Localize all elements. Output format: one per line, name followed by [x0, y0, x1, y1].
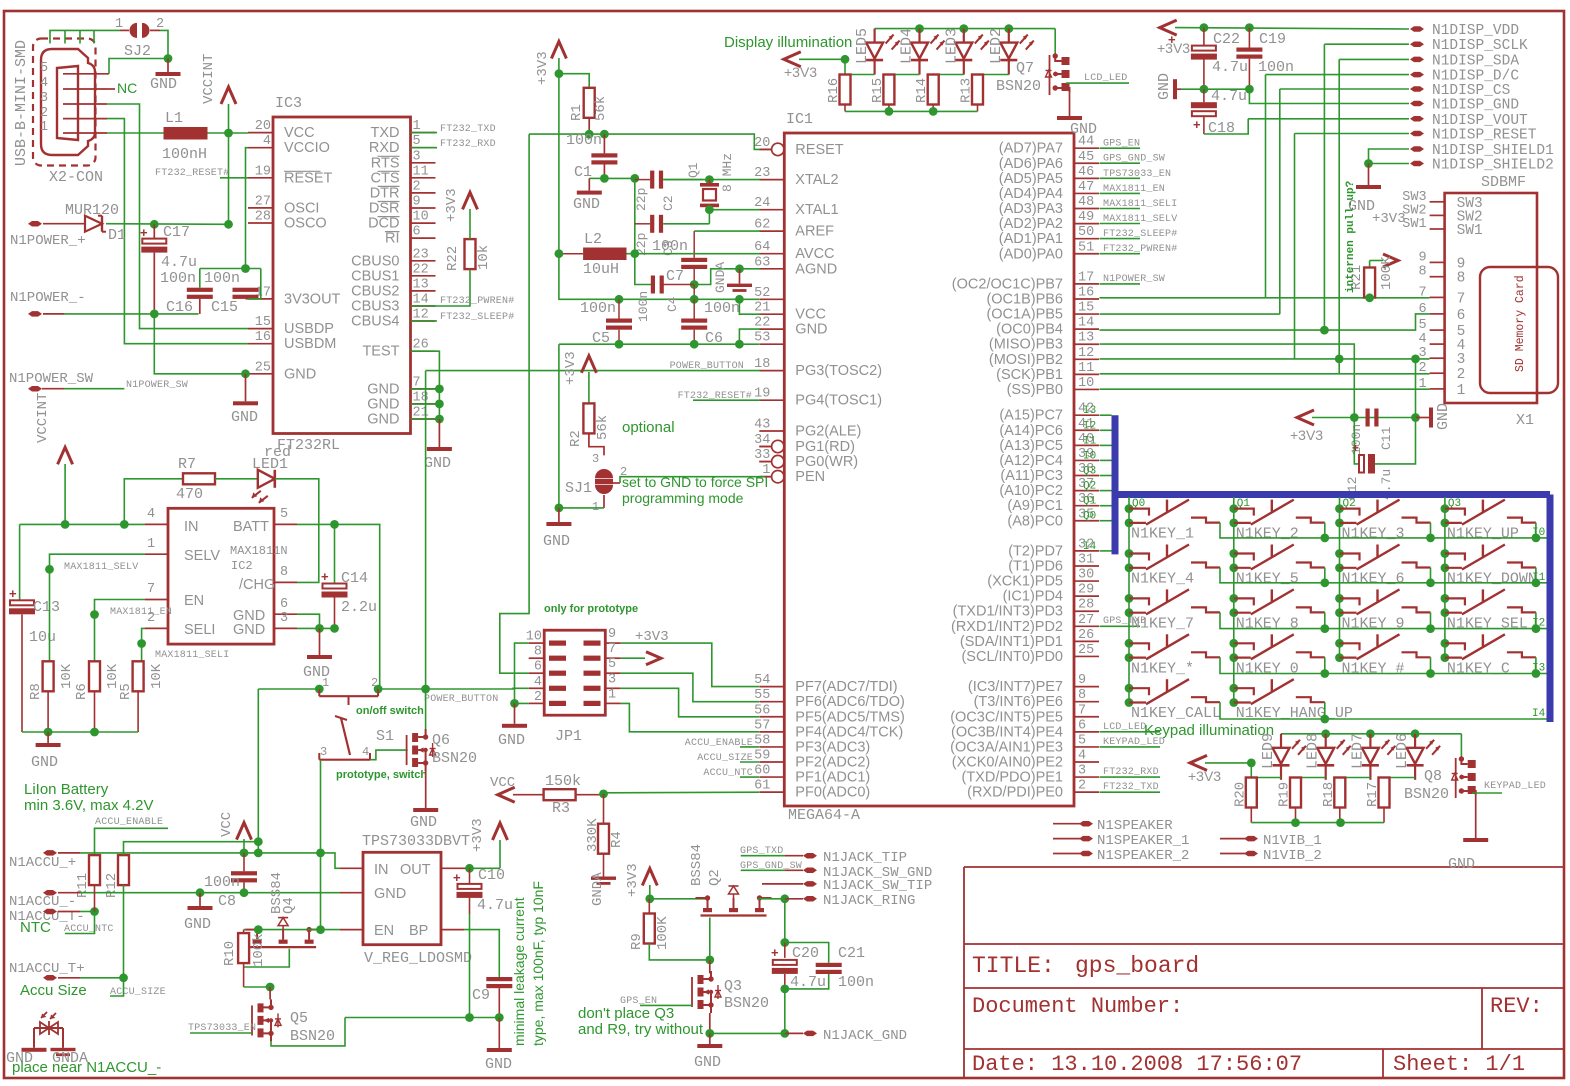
svg-text:(SDA/INT1)PD1: (SDA/INT1)PD1: [960, 634, 1063, 650]
svg-text:C2: C2: [661, 195, 676, 211]
svg-text:(A14)PC6: (A14)PC6: [999, 423, 1063, 439]
svg-text:I0: I0: [1083, 450, 1096, 462]
svg-text:XTAL1: XTAL1: [795, 202, 838, 218]
svg-text:3: 3: [320, 745, 327, 759]
svg-text:N1SPEAKER_2: N1SPEAKER_2: [1097, 848, 1189, 864]
svg-text:POWER_BUTTON: POWER_BUTTON: [670, 361, 744, 372]
svg-text:Q8: Q8: [1424, 768, 1442, 785]
wire TPS73033_EN label: [190, 1032, 252, 1034]
wire FT232 TXD net: [411, 132, 438, 134]
svg-text:PF6(ADC6/TDO): PF6(ADC6/TDO): [795, 694, 905, 710]
IC1 pin 9 (IC3/INT7)PE7: [1074, 686, 1099, 688]
net stub N1DISP_SHIELD1: [1410, 146, 1424, 152]
svg-text:N1VIB_2: N1VIB_2: [1263, 848, 1322, 864]
svg-text:N1VIB_1: N1VIB_1: [1263, 833, 1322, 849]
svg-text:5: 5: [1078, 733, 1086, 748]
wire N1DISP_VOUT: [1248, 118, 1409, 120]
capacitor C5 100n: [618, 299, 620, 318]
wire N1DISP_D/C: [1266, 74, 1410, 76]
IC3 pin 14 CBUS3: [411, 305, 436, 307]
svg-text:(IC1)PD4: (IC1)PD4: [1003, 589, 1063, 605]
capacitor C10 4.7u: [469, 868, 471, 884]
svg-text:10K: 10K: [59, 663, 75, 689]
wire net GPS_EN at IC1: [1100, 147, 1141, 149]
resistor R12: [118, 855, 129, 885]
IC3 pin 6 RI: [411, 237, 436, 239]
svg-text:15: 15: [255, 315, 271, 330]
capacitor C3 22p: [635, 223, 650, 225]
svg-text:10: 10: [413, 210, 429, 225]
wire AGND to pin 63: [740, 268, 761, 270]
svg-text:R2: R2: [568, 430, 584, 447]
wire keypad column Q2: [1339, 497, 1341, 658]
IC1 pin 55 PF6(ADC6/TDO): [759, 701, 784, 703]
resistor R14: [932, 74, 934, 76]
IC1 pin 64 AVCC: [759, 253, 784, 255]
TPS pin EN: [340, 929, 363, 931]
svg-text:TPS73033DBVT: TPS73033DBVT: [362, 833, 470, 850]
switch N1KEY_4: [1125, 549, 1134, 558]
IC1 pin 61 PF0(ADC0): [759, 791, 784, 793]
svg-text:(MOSI)PB2: (MOSI)PB2: [989, 352, 1063, 368]
wire JP1 pin3 to PF5: [621, 688, 759, 717]
svg-text:internen pull-up?: internen pull-up?: [1345, 181, 1357, 293]
svg-text:OUT: OUT: [400, 862, 431, 878]
IC1 pin 22 GND: [759, 328, 784, 330]
svg-text:VCC: VCC: [219, 812, 235, 837]
svg-text:Display illumination: Display illumination: [724, 34, 852, 51]
IC1 pin 46 (AD5)PA5: [1074, 177, 1099, 179]
junction R21 bottom on SD7 row: [1365, 293, 1374, 302]
resistor R5 10K: [133, 661, 144, 691]
svg-text:gps_board: gps_board: [1075, 953, 1199, 979]
svg-text:3: 3: [40, 91, 48, 106]
svg-text:(AD3)PA3: (AD3)PA3: [999, 201, 1063, 217]
transistor Q2 BSS84: [696, 897, 708, 899]
svg-text:C20: C20: [792, 945, 819, 962]
SD pin 2: [1430, 372, 1445, 374]
svg-text:(SS)PB0: (SS)PB0: [1007, 382, 1063, 398]
svg-text:100n: 100n: [1258, 59, 1294, 76]
svg-text:I2: I2: [1532, 618, 1545, 630]
net stub N1SPEAKER_1: [1053, 838, 1080, 840]
IC2 pin 8 /CHG: [274, 581, 297, 583]
svg-text:R10: R10: [222, 941, 238, 966]
svg-text:(XCK0/AIN0)PE2: (XCK0/AIN0)PE2: [952, 755, 1063, 771]
IC3 pin 15 USBDP: [248, 328, 273, 330]
svg-text:(AD1)PA1: (AD1)PA1: [999, 231, 1063, 247]
IC1 pin 51 (AD0)PA0: [1074, 253, 1099, 255]
wire +3V3 to R1: [559, 74, 589, 88]
wire keypad resistor bottoms: [1250, 808, 1252, 823]
svg-text:GND: GND: [424, 455, 451, 472]
IC2 pin 4 IN: [145, 523, 168, 525]
IC1 pin 30 (XCK1)PD5: [1074, 580, 1099, 582]
svg-text:LED5: LED5: [854, 28, 871, 64]
wire N1DISP_SHIELD2: [1369, 163, 1410, 165]
LED LED4: [918, 29, 920, 43]
svg-text:I1: I1: [1083, 435, 1097, 447]
IC1 pin 62 AREF: [759, 230, 784, 232]
capacitor C20 4.7u: [784, 943, 786, 958]
svg-text:POWER_BUTTON: POWER_BUTTON: [424, 694, 498, 705]
svg-text:MAX1811_SELI: MAX1811_SELI: [155, 650, 229, 661]
svg-text:PG3(TOSC2): PG3(TOSC2): [795, 363, 882, 379]
svg-text:programming mode: programming mode: [622, 490, 744, 506]
svg-text:+: +: [1193, 117, 1201, 132]
wire battery switch vertical: [257, 689, 259, 853]
svg-text:Document Number:: Document Number:: [972, 994, 1183, 1019]
X2 pin 5: [63, 73, 107, 75]
wire POWER_BUTTON to JP1 pin4: [426, 687, 529, 690]
wire resistor bottom rail to GND: [47, 691, 49, 732]
svg-text:GND: GND: [231, 409, 258, 426]
svg-text:R1: R1: [569, 104, 585, 121]
svg-text:R18: R18: [1321, 782, 1337, 807]
resistor R17: [1383, 777, 1385, 779]
net stub N1DISP_SDA: [1410, 57, 1424, 63]
wire KEYPAD_LED from Q8: [1472, 792, 1502, 794]
dual diode GND GNDA coupling: [34, 1027, 63, 1029]
svg-text:IC1: IC1: [786, 111, 813, 128]
svg-text:+: +: [453, 870, 461, 885]
ground GNDA under R4: [603, 854, 605, 877]
svg-text:+: +: [1352, 441, 1359, 455]
svg-text:GND: GND: [573, 196, 600, 213]
wire FT232 RXD net: [411, 147, 438, 149]
wire +3V3 to R20: [1205, 762, 1251, 764]
wire S1 pin2 to POWER_BUTTON node: [378, 688, 426, 690]
svg-text:PG2(ALE): PG2(ALE): [795, 424, 861, 440]
svg-text:(AD0)PA0: (AD0)PA0: [999, 246, 1063, 262]
svg-text:45: 45: [1078, 150, 1094, 165]
svg-text:(RXD1/INT2)PD2: (RXD1/INT2)PD2: [951, 619, 1063, 635]
wire EN to Q4/R10 node: [258, 929, 340, 931]
svg-text:8: 8: [1418, 265, 1426, 280]
wire N1DISP_SHIELD1 to GND: [1369, 149, 1410, 164]
svg-text:R19: R19: [1277, 782, 1293, 807]
svg-text:C13: C13: [33, 599, 60, 616]
wire GND row under regulator: [345, 1017, 499, 1019]
svg-text:Q1: Q1: [686, 162, 701, 178]
wire JP1 pin9 +3V3 to PF7: [621, 643, 759, 687]
SD pin 9: [1430, 261, 1445, 263]
junction at VCCINT/D1: [224, 220, 233, 229]
wire JP1 pin10/pin2 GND: [515, 643, 529, 703]
IC3 pin 5 RXD: [411, 147, 436, 149]
wire S1 pin4 to Q6 gate: [370, 750, 408, 760]
svg-text:VCC: VCC: [490, 775, 515, 791]
svg-text:/CHG: /CHG: [239, 577, 275, 593]
SD pin 3: [1430, 357, 1445, 359]
wire N1ACCU_+ row: [58, 852, 80, 854]
LED LED2: [1008, 29, 1010, 43]
svg-text:7: 7: [1418, 285, 1426, 300]
IC1 pin 53 GND: [759, 343, 784, 345]
transistor Q7 BSN20: [1054, 29, 1056, 54]
wire N1DISP_SDA: [1339, 58, 1409, 60]
LED LED1 red: [215, 478, 258, 480]
svg-text:USBDM: USBDM: [284, 336, 336, 352]
dual diode GND GNDA coupling arrows: [41, 1012, 47, 1018]
solder jumper SJ1: [595, 469, 613, 478]
svg-text:Q4: Q4: [281, 897, 297, 914]
svg-text:PG1(RD): PG1(RD): [795, 439, 855, 455]
supply VCCINT arrow: [228, 104, 230, 133]
wire keypad column Q3: [1444, 497, 1446, 658]
wire S1 pin3 down to Q4 right: [320, 760, 322, 930]
svg-text:CBUS4: CBUS4: [351, 314, 399, 330]
X2 pin 2: [63, 118, 107, 120]
IC3 pin 21 GND: [411, 418, 436, 420]
svg-text:Q3: Q3: [724, 978, 742, 995]
supply +3V3 top center: [551, 42, 566, 59]
svg-text:C7: C7: [666, 268, 684, 285]
IC1 pin 52 VCC: [759, 298, 784, 300]
wire N1JACK_GND row: [710, 1032, 785, 1034]
wire LCD_LED from Q7 gate: [1066, 82, 1129, 84]
svg-text:7: 7: [1457, 291, 1466, 307]
svg-text:LED9: LED9: [1260, 733, 1277, 769]
junction R16 top: [841, 55, 850, 64]
svg-text:+: +: [771, 945, 779, 960]
svg-text:7: 7: [1078, 703, 1086, 718]
svg-text:MAX1811N: MAX1811N: [230, 544, 288, 558]
svg-text:GPS_EN: GPS_EN: [1103, 139, 1140, 150]
svg-text:RXD: RXD: [369, 140, 400, 156]
ground GND battery rail: [47, 732, 49, 743]
svg-text:34: 34: [754, 433, 770, 448]
svg-text:(OC2/OC1C)PB7: (OC2/OC1C)PB7: [952, 276, 1063, 292]
svg-text:100n: 100n: [652, 238, 688, 255]
wire net GPS_GND_SW at IC1: [1100, 162, 1141, 164]
svg-text:(A9)PC1: (A9)PC1: [1007, 498, 1063, 514]
svg-text:RESET: RESET: [284, 170, 332, 186]
resistor R21 100K internal pullup: [1383, 254, 1398, 267]
switch N1KEY_5: [1229, 549, 1238, 558]
svg-text:X1: X1: [1516, 412, 1534, 429]
svg-text:100k: 100k: [251, 933, 267, 967]
IC3 pin 17 3V3OUT: [248, 298, 273, 300]
svg-text:AVCC: AVCC: [795, 246, 834, 262]
wire FT232_RESET# pin19: [693, 399, 760, 401]
IC1 pin 44 (AD7)PA7: [1074, 147, 1099, 149]
svg-text:TPS73033_EN: TPS73033_EN: [188, 1023, 256, 1034]
svg-text:6: 6: [1457, 308, 1466, 324]
svg-text:PEN: PEN: [795, 469, 825, 485]
svg-text:minimal leakage current: minimal leakage current: [511, 897, 527, 1046]
svg-text:VCC: VCC: [795, 307, 826, 323]
svg-text:IN: IN: [374, 862, 389, 878]
svg-text:GND: GND: [150, 76, 177, 93]
supply +3V3 arrow at C11: [1297, 410, 1314, 425]
SD pin 8: [1430, 276, 1445, 278]
IC3 pin 9 DSR: [411, 207, 436, 209]
svg-text:GNDA: GNDA: [713, 262, 728, 293]
ground GND under Q3: [709, 1033, 711, 1044]
net stub N1POWER_-: [28, 311, 42, 317]
IC1 pin 40 (A13)PC5: [1074, 444, 1099, 446]
junction crystal cap rail: [630, 174, 639, 183]
IC1 pin 15 (OC1A)PB5: [1074, 313, 1099, 315]
svg-text:(A11)PC3: (A11)PC3: [1000, 468, 1063, 484]
switch N1KEY_UP: [1441, 504, 1450, 513]
svg-text:(T1)PD6: (T1)PD6: [1008, 558, 1063, 574]
svg-text:100n: 100n: [704, 300, 740, 317]
junction C7 bottom: [690, 280, 699, 289]
wire net MAX1811_EN at IC1: [1100, 192, 1141, 194]
svg-text:LED3: LED3: [943, 28, 960, 64]
SD pin 5: [1430, 329, 1445, 331]
SD pin 6: [1430, 313, 1445, 315]
svg-text:(TXD1/INT3)PD3: (TXD1/INT3)PD3: [953, 604, 1063, 620]
svg-text:N1ACCU_T+: N1ACCU_T+: [9, 961, 85, 977]
ground GNDA at AGND: [739, 269, 741, 284]
svg-text:N1KEY_C: N1KEY_C: [1447, 660, 1510, 677]
connector SDBMF SD card outline: [1445, 193, 1537, 403]
supply +3V3 arrow jack: [642, 869, 657, 886]
svg-text:OSCI: OSCI: [284, 200, 319, 216]
svg-text:FT232_RXD: FT232_RXD: [1103, 767, 1159, 778]
junction C15 top: [241, 264, 250, 273]
svg-text:4.7u: 4.7u: [477, 897, 513, 914]
wire resistor bottoms row: [844, 105, 846, 112]
svg-text:+3V3: +3V3: [1372, 211, 1406, 227]
svg-text:prototype, switch: prototype, switch: [336, 769, 427, 781]
IC1 pin 14 (OC0)PB4: [1074, 328, 1099, 330]
svg-text:4.7u: 4.7u: [161, 254, 197, 271]
svg-text:R3: R3: [552, 800, 570, 817]
svg-text:9: 9: [1418, 250, 1426, 265]
IC1 pin 42 (A15)PC7: [1074, 414, 1099, 416]
svg-text:R16: R16: [826, 78, 842, 103]
svg-text:N1KEY_UP: N1KEY_UP: [1447, 526, 1519, 543]
wire keypad column Q1: [1233, 497, 1235, 703]
resistor R9 100k: [648, 899, 650, 914]
wire Q2 gate down to R9 node: [709, 918, 711, 960]
IC3 pin 13 CBUS2: [411, 290, 436, 292]
net stub N1JACK_SW_GND with GPS_GND_SW: [741, 869, 785, 871]
IC1 pin 50 (AD1)PA1: [1074, 238, 1099, 240]
wire FT232_TXD pin2: [1100, 791, 1161, 793]
svg-text:IC3: IC3: [275, 95, 302, 112]
IC3 pin 20 VCC: [248, 132, 273, 134]
svg-text:Q3: Q3: [1083, 466, 1096, 478]
supply VCC arrow left: [498, 787, 515, 802]
wire C20/C21 from ring: [784, 899, 786, 943]
svg-text:BSN20: BSN20: [290, 1028, 335, 1045]
wire FT232_RESET# at pin 19: [220, 177, 248, 179]
IC1 pin 60 PF1(ADC1): [759, 776, 784, 778]
svg-text:N1KEY_4: N1KEY_4: [1131, 571, 1194, 588]
IC1 pin 38 (A11)PC3: [1074, 475, 1099, 477]
svg-text:N1ACCU_-: N1ACCU_-: [9, 894, 76, 910]
resistor R19: [1295, 777, 1297, 779]
svg-text:(A13)PC5: (A13)PC5: [999, 438, 1063, 454]
IC3 pin 11 CTS: [411, 177, 436, 179]
svg-text:LED7: LED7: [1349, 733, 1366, 769]
svg-text:100n: 100n: [204, 874, 240, 891]
ground GNDA right: [51, 1048, 76, 1051]
ground GND under C1: [577, 191, 602, 195]
svg-text:PF2(ADC2): PF2(ADC2): [795, 755, 870, 771]
svg-text:49: 49: [1078, 210, 1094, 225]
svg-text:GND: GND: [31, 754, 58, 771]
svg-text:N1SPEAKER_1: N1SPEAKER_1: [1097, 833, 1189, 849]
svg-text:OSCO: OSCO: [284, 216, 327, 232]
capacitor C11 100n: [1366, 409, 1370, 427]
svg-text:6: 6: [280, 597, 288, 612]
wire D1 to VCCINT vertical: [106, 223, 229, 226]
svg-text:N1KEY_5: N1KEY_5: [1236, 571, 1299, 588]
svg-text:BSN20: BSN20: [996, 78, 1041, 95]
IC3 pin 10 DCD: [411, 222, 436, 224]
SD pin 1: [1430, 388, 1445, 390]
svg-text:17: 17: [1078, 270, 1094, 285]
capacitor C21 100n: [785, 943, 829, 963]
IC3 pin 26 TEST: [411, 350, 436, 352]
svg-text:RTS: RTS: [371, 155, 400, 171]
wire CS vertical: [1279, 89, 1281, 314]
capacitor C16 100n: [199, 269, 201, 288]
svg-text:14: 14: [1078, 316, 1094, 331]
svg-text:N1KEY_CALL: N1KEY_CALL: [1131, 705, 1221, 722]
svg-text:MAX1811_EN: MAX1811_EN: [1103, 184, 1165, 195]
svg-text:CBUS3: CBUS3: [351, 299, 399, 315]
IC3 pin 19 RESET: [248, 177, 273, 179]
wire N1ACCU_- row: [58, 892, 80, 894]
wire C17 bottom to N1POWER_- row: [153, 253, 155, 314]
wire GND row 22/53: [559, 343, 759, 345]
IC1 pin 7 (OC3C/INT5)PE5: [1074, 716, 1099, 718]
wire bus entry I1: [1100, 444, 1112, 446]
capacitor C1 100n: [603, 134, 605, 153]
svg-text:(AD5)PA5: (AD5)PA5: [999, 171, 1063, 187]
IC1 pin 18 PG3: [759, 370, 784, 372]
svg-text:MAX1811_EN: MAX1811_EN: [110, 607, 172, 618]
svg-text:don't place Q3: don't place Q3: [578, 1005, 674, 1022]
capacitor C9 on BP: [464, 930, 499, 977]
net stub N1DISP_RESET: [1410, 131, 1424, 137]
svg-text:N1KEY_9: N1KEY_9: [1342, 615, 1405, 632]
svg-text:KEYPAD_LED: KEYPAD_LED: [1484, 781, 1546, 792]
LED LED3: [963, 29, 965, 43]
IC1 pin 35 (A8)PC0: [1074, 520, 1099, 522]
IC1 pin 26 (SDA/INT1)PD1: [1074, 640, 1099, 642]
wire SCLK vertical: [1323, 44, 1325, 330]
switch N1KEY_C: [1441, 639, 1450, 648]
svg-text:43: 43: [754, 418, 770, 433]
svg-text:GND: GND: [485, 1056, 512, 1073]
svg-text:SELI: SELI: [184, 622, 215, 638]
supply arrow right at JP1 pin7: [621, 657, 645, 659]
svg-text:23: 23: [413, 247, 429, 262]
wire GND mid row: [1181, 88, 1249, 90]
svg-text:10: 10: [1078, 376, 1094, 391]
svg-text:8 MHz: 8 MHz: [720, 153, 735, 192]
svg-text:+: +: [9, 586, 17, 601]
ground GND under Q7: [1069, 92, 1071, 116]
wire SJ1 pin1 to GND: [603, 495, 605, 508]
wire SELI net: [142, 628, 145, 661]
wire IN row: [20, 523, 145, 525]
IC3 pin 18 GND: [411, 403, 436, 405]
wire C1 bottom to GND symbol: [589, 177, 604, 179]
IC2 pin 7 EN: [145, 599, 168, 601]
transistor Q4 BSS84: [245, 929, 257, 931]
IC1 pin 29 (IC1)PD4: [1074, 595, 1099, 597]
svg-text:TXD: TXD: [371, 125, 400, 141]
